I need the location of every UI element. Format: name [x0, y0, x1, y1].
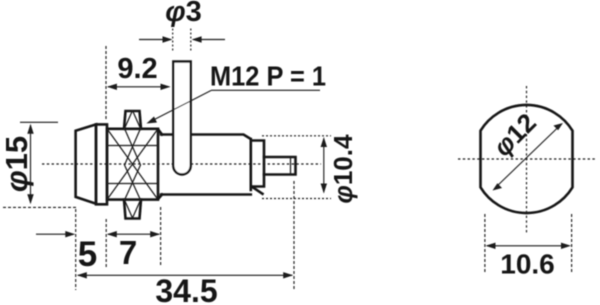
svg-text:M12 P = 1: M12 P = 1	[210, 61, 326, 92]
step cylinder	[251, 141, 264, 187]
svg-text:9.2: 9.2	[117, 53, 157, 85]
svg-text:5: 5	[78, 235, 97, 274]
dim phi15 extensions	[20, 121, 58, 123]
thread barrel	[107, 129, 158, 200]
dim phi15 line	[30, 126, 32, 203]
dim 7 line	[108, 233, 159, 235]
nut knurl zigzag A	[125, 111, 141, 219]
dim 34.5 line	[78, 274, 292, 276]
centerlines	[458, 86, 597, 234]
nut top tab	[124, 111, 141, 129]
extension lines bottom	[76, 181, 294, 290]
bezel flange (front)	[76, 124, 96, 203]
dim 9.2 extension	[105, 46, 107, 121]
dim phi10.4 line	[323, 139, 325, 192]
svg-text:34.5: 34.5	[155, 273, 217, 305]
dim phi3 arrows	[139, 39, 225, 41]
body outline circle with flats	[481, 105, 573, 213]
svg-text:10.6: 10.6	[500, 249, 555, 280]
dim 9.2 line	[108, 86, 169, 88]
thread pattern big X	[107, 129, 158, 200]
leader M12	[149, 90, 320, 122]
top pin phi3	[173, 62, 190, 175]
thread pattern horizontals	[107, 146, 158, 184]
dim 10.6 extensions	[485, 214, 572, 272]
centerline side view	[42, 163, 321, 165]
bezel cylinder	[96, 124, 107, 204]
nut knurl zigzag B	[125, 111, 141, 219]
dim phi3 extension lines	[173, 29, 191, 52]
svg-text:φ3: φ3	[165, 0, 202, 28]
dim phi10.4 extensions	[262, 135, 331, 137]
svg-text:φ10.4: φ10.4	[328, 134, 358, 203]
dim 5 outside arrow	[36, 233, 73, 235]
nut bottom tab	[124, 200, 141, 219]
dim 10.6 line	[487, 245, 569, 247]
svg-text:φ15: φ15	[0, 136, 34, 192]
svg-text:7: 7	[119, 234, 137, 271]
body cylinder	[161, 135, 263, 195]
shoulder chamfer	[158, 129, 162, 199]
phi12 diameter arrow	[495, 125, 562, 189]
terminal pin	[264, 157, 296, 175]
